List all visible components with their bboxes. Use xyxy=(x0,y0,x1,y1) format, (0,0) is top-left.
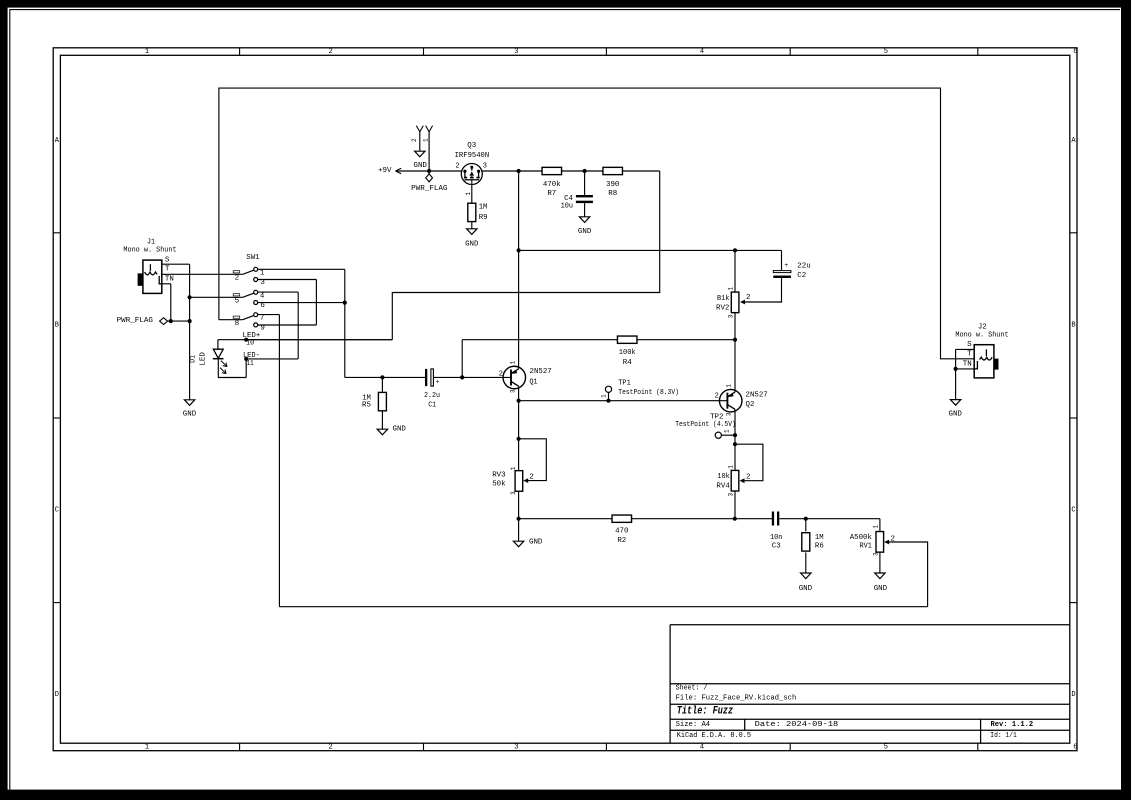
svg-text:C: C xyxy=(55,506,59,514)
svg-text:1: 1 xyxy=(260,270,265,278)
svg-text:3: 3 xyxy=(873,552,880,556)
svg-text:3: 3 xyxy=(726,412,733,416)
svg-text:470: 470 xyxy=(615,528,629,536)
svg-text:3: 3 xyxy=(483,162,487,170)
svg-text:RV4: RV4 xyxy=(716,482,730,490)
svg-text:9: 9 xyxy=(260,324,265,332)
svg-text:D1: D1 xyxy=(189,355,197,363)
svg-text:8: 8 xyxy=(235,320,240,328)
svg-text:GND: GND xyxy=(949,410,963,418)
svg-text:2N527: 2N527 xyxy=(746,392,768,400)
svg-text:GND: GND xyxy=(799,585,813,593)
svg-text:2: 2 xyxy=(411,138,418,142)
svg-text:3: 3 xyxy=(514,48,518,56)
svg-text:2N527: 2N527 xyxy=(530,368,552,376)
svg-text:S: S xyxy=(165,257,170,265)
svg-text:Size: A4: Size: A4 xyxy=(676,721,711,729)
svg-text:10: 10 xyxy=(246,339,254,347)
svg-text:1: 1 xyxy=(873,525,880,529)
svg-text:Q2: Q2 xyxy=(746,401,755,409)
svg-text:C1: C1 xyxy=(428,402,436,410)
svg-text:B: B xyxy=(55,321,59,329)
svg-text:1: 1 xyxy=(465,192,472,196)
svg-text:RV2: RV2 xyxy=(716,305,730,313)
svg-text:B: B xyxy=(1071,321,1075,329)
svg-text:1: 1 xyxy=(728,465,735,469)
svg-text:Id: 1/1: Id: 1/1 xyxy=(990,732,1017,740)
svg-text:File: Fuzz_Face_RV.kicad_sch: File: Fuzz_Face_RV.kicad_sch xyxy=(676,694,797,702)
svg-text:10n: 10n xyxy=(770,534,782,542)
svg-text:6: 6 xyxy=(260,302,265,310)
svg-text:6: 6 xyxy=(1073,48,1077,56)
svg-text:2: 2 xyxy=(529,473,534,481)
svg-text:Date: 2024-09-18: Date: 2024-09-18 xyxy=(755,721,839,729)
svg-text:2: 2 xyxy=(235,274,240,282)
svg-text:1M: 1M xyxy=(479,204,488,212)
svg-text:C: C xyxy=(1071,506,1075,514)
svg-text:SW1: SW1 xyxy=(246,254,260,262)
svg-text:2: 2 xyxy=(328,48,332,56)
svg-text:R9: R9 xyxy=(479,214,488,222)
svg-text:GND: GND xyxy=(393,425,407,433)
svg-text:LED: LED xyxy=(200,352,208,366)
svg-text:1: 1 xyxy=(423,138,430,142)
svg-text:3: 3 xyxy=(728,493,735,497)
svg-text:RV1: RV1 xyxy=(860,543,873,551)
svg-text:2: 2 xyxy=(891,535,896,543)
svg-text:100k: 100k xyxy=(619,349,636,357)
svg-text:R5: R5 xyxy=(362,402,371,410)
svg-text:GND: GND xyxy=(578,228,592,236)
svg-text:7: 7 xyxy=(260,315,265,323)
svg-text:GND: GND xyxy=(465,241,479,249)
svg-text:4: 4 xyxy=(700,48,704,56)
svg-text:GND: GND xyxy=(183,410,197,418)
svg-text:+9V: +9V xyxy=(378,167,392,175)
svg-text:GND: GND xyxy=(874,585,888,593)
svg-text:B1k: B1k xyxy=(717,295,730,303)
svg-text:1: 1 xyxy=(601,394,608,398)
svg-text:Mono w. Shunt: Mono w. Shunt xyxy=(955,331,1008,339)
svg-text:R7: R7 xyxy=(547,190,556,198)
svg-text:4: 4 xyxy=(260,292,265,300)
svg-text:TP1: TP1 xyxy=(618,380,631,388)
svg-text:TestPoint (4.5V): TestPoint (4.5V) xyxy=(675,421,736,429)
svg-text:3: 3 xyxy=(727,314,734,318)
svg-text:2: 2 xyxy=(455,162,459,170)
svg-text:RV3: RV3 xyxy=(492,472,506,480)
svg-text:Q3: Q3 xyxy=(467,142,476,150)
svg-text:1: 1 xyxy=(727,287,734,291)
svg-text:2: 2 xyxy=(715,393,719,401)
svg-text:1: 1 xyxy=(145,48,149,56)
svg-text:KiCad E.D.A. 8.0.5: KiCad E.D.A. 8.0.5 xyxy=(677,732,752,740)
svg-text:PWR_FLAG: PWR_FLAG xyxy=(117,317,154,325)
svg-text:Rev: 1.1.2: Rev: 1.1.2 xyxy=(991,721,1034,729)
svg-text:+: + xyxy=(436,379,440,386)
svg-text:IRF9540N: IRF9540N xyxy=(455,152,490,160)
svg-text:PWR_FLAG: PWR_FLAG xyxy=(411,185,448,193)
svg-text:1: 1 xyxy=(509,360,516,364)
svg-text:T: T xyxy=(165,265,170,273)
svg-text:D: D xyxy=(55,691,59,699)
svg-text:470k: 470k xyxy=(543,181,561,189)
svg-text:Title: Fuzz: Title: Fuzz xyxy=(677,705,734,717)
svg-text:T: T xyxy=(967,350,972,358)
svg-text:LED-: LED- xyxy=(243,352,260,360)
svg-text:R4: R4 xyxy=(623,359,632,367)
svg-text:10k: 10k xyxy=(717,473,730,481)
svg-text:3: 3 xyxy=(514,743,518,751)
svg-text:3: 3 xyxy=(260,279,265,287)
svg-text:TN: TN xyxy=(165,276,174,284)
svg-text:R2: R2 xyxy=(617,537,626,545)
svg-text:R8: R8 xyxy=(608,190,617,198)
svg-text:5: 5 xyxy=(235,297,240,305)
svg-text:5: 5 xyxy=(884,743,888,751)
svg-text:1: 1 xyxy=(145,743,149,751)
svg-text:1M: 1M xyxy=(815,534,824,542)
svg-text:1: 1 xyxy=(510,466,517,470)
svg-text:5: 5 xyxy=(884,48,888,56)
svg-text:+: + xyxy=(784,262,788,269)
svg-text:Sheet: /: Sheet: / xyxy=(676,684,708,692)
svg-text:Q1: Q1 xyxy=(530,379,538,387)
svg-text:A500k: A500k xyxy=(850,534,873,542)
svg-text:J1: J1 xyxy=(147,239,155,247)
svg-text:GND: GND xyxy=(414,162,428,170)
svg-text:D: D xyxy=(1071,691,1075,699)
svg-text:11: 11 xyxy=(247,360,254,368)
svg-text:2: 2 xyxy=(746,473,751,481)
svg-text:C2: C2 xyxy=(797,272,806,280)
svg-text:C3: C3 xyxy=(772,542,781,550)
svg-text:4: 4 xyxy=(700,743,704,751)
svg-text:TN: TN xyxy=(963,361,972,369)
svg-text:6: 6 xyxy=(1073,743,1077,751)
svg-text:2: 2 xyxy=(328,743,332,751)
svg-text:390: 390 xyxy=(606,181,620,189)
svg-text:1: 1 xyxy=(723,429,730,433)
svg-text:Mono w. Shunt: Mono w. Shunt xyxy=(123,247,176,255)
svg-text:3: 3 xyxy=(510,491,517,495)
svg-text:22u: 22u xyxy=(797,262,810,270)
svg-text:1: 1 xyxy=(726,384,733,388)
svg-text:2.2u: 2.2u xyxy=(424,392,440,400)
svg-text:10u: 10u xyxy=(561,203,573,211)
svg-text:2: 2 xyxy=(499,370,503,378)
svg-text:3: 3 xyxy=(509,389,516,393)
svg-text:2: 2 xyxy=(746,294,751,302)
svg-text:R6: R6 xyxy=(815,543,824,551)
svg-text:TestPoint (8.3V): TestPoint (8.3V) xyxy=(618,389,679,397)
svg-text:50k: 50k xyxy=(492,480,506,488)
svg-text:GND: GND xyxy=(529,538,543,546)
svg-text:S: S xyxy=(967,341,972,349)
